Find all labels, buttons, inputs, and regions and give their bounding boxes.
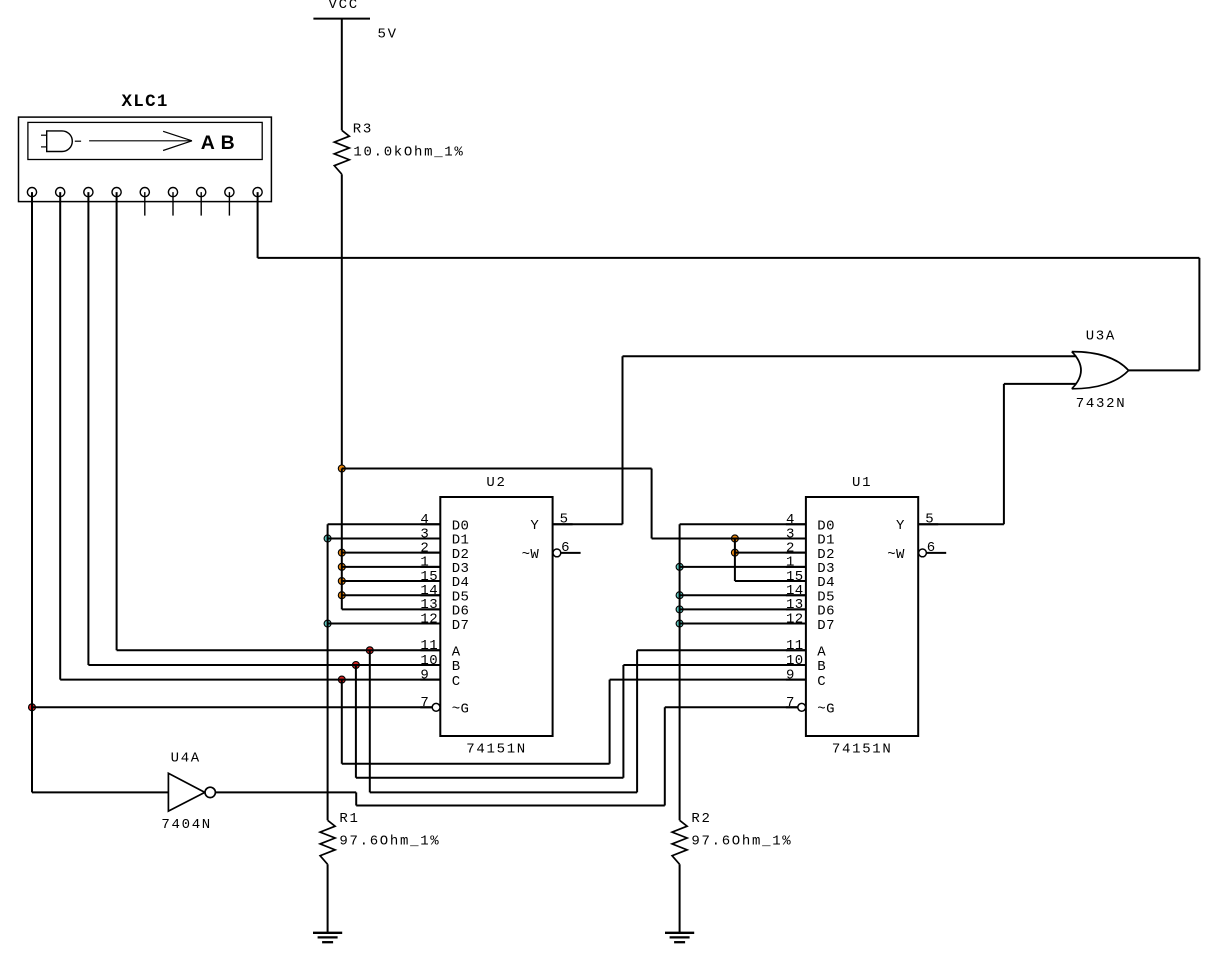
- svg-text:12: 12: [420, 611, 438, 627]
- XLC1 terminal 5: [140, 188, 149, 197]
- wire A branch down: [369, 650, 371, 792]
- U1 pin 7 bubble: [798, 703, 806, 711]
- wire top horizontal: [258, 257, 1200, 259]
- U2 pin 9 C stub: [420, 679, 440, 681]
- svg-text:97.6Ohm_1%: 97.6Ohm_1%: [691, 834, 792, 850]
- svg-text:11: 11: [786, 638, 804, 654]
- wire XLC1 terminal 3 down: [87, 192, 89, 665]
- junction U2 D1: [324, 535, 331, 542]
- wire B to U2 pin 10: [88, 664, 440, 666]
- wire C to U1 pin 9: [610, 679, 806, 681]
- U1 pin 13 D6 stub: [786, 608, 806, 610]
- svg-text:6: 6: [561, 540, 570, 556]
- wire U2 ground bus vertical: [327, 524, 329, 820]
- svg-text:11: 11: [420, 638, 438, 654]
- XLC1 unused terminal 8 stub: [228, 192, 230, 216]
- junction U1 D5: [676, 592, 683, 599]
- wire U1 D3 from bus: [680, 566, 806, 568]
- XLC1 unused terminal 6 stub: [172, 192, 174, 216]
- U1 pin 6 ~W stub: [926, 552, 946, 554]
- wire G to U1 pin 7: [665, 706, 798, 708]
- svg-text:Y: Y: [896, 518, 905, 534]
- wire U2 D7 from bus: [328, 623, 441, 625]
- U2 pin 7 bubble: [432, 703, 440, 711]
- XLC1 unused terminal 5 stub: [144, 192, 146, 216]
- wire A up to U1 level: [636, 650, 638, 792]
- U1 pin 6 bubble: [919, 549, 927, 557]
- wire R1 to ground: [327, 864, 329, 933]
- wire XLC1 terminal 1 down: [31, 192, 33, 792]
- junction B branch: [352, 662, 359, 669]
- svg-text:Y: Y: [530, 518, 539, 534]
- svg-text:~G: ~G: [452, 702, 470, 718]
- wire R3 bottom to node: [341, 174, 343, 468]
- wire U2 D4 from bus: [342, 580, 441, 582]
- ground GND2: [665, 932, 694, 934]
- svg-text:U1: U1: [852, 475, 872, 491]
- U1 pin 5 Y stub: [918, 523, 938, 525]
- U4A output bubble: [205, 787, 215, 797]
- power VCC 5V symbol: [313, 18, 370, 20]
- wire U2 D6 from bus: [342, 608, 441, 610]
- svg-text:XLC1: XLC1: [122, 92, 169, 112]
- svg-text:7432N: 7432N: [1076, 396, 1127, 412]
- junction U1 D6: [676, 606, 683, 613]
- XLC1 terminal 9: [253, 188, 262, 197]
- U1 pin 14 D5 stub: [786, 594, 806, 596]
- svg-text:74151N: 74151N: [466, 742, 527, 758]
- svg-text:R3: R3: [353, 122, 373, 138]
- svg-text:~G: ~G: [817, 702, 835, 718]
- XLC1 terminal 6: [168, 188, 177, 197]
- wire down to U1 D1 level: [651, 469, 653, 539]
- wire U2 D3 from bus: [342, 566, 441, 568]
- svg-text:~W: ~W: [522, 547, 540, 563]
- U1 pin 3 D1 stub: [786, 537, 806, 539]
- U1 pin 4 D0 stub: [786, 523, 806, 525]
- wire R3 node horizontal: [342, 468, 652, 470]
- U2 pin 15 D4 stub: [420, 580, 440, 582]
- junction C branch: [338, 676, 345, 683]
- wire A to U2 pin 11: [117, 649, 441, 651]
- svg-text:A B: A B: [201, 132, 235, 154]
- svg-text:D7: D7: [452, 618, 470, 634]
- XLC1 terminal 4: [112, 188, 121, 197]
- U2 pin 6 bubble: [553, 549, 561, 557]
- resistor R2: [672, 820, 687, 864]
- wire XLC1 terminal 2 down: [59, 192, 61, 679]
- wire U1 D4 from branch: [735, 580, 806, 582]
- wire U2 D5 from bus: [342, 594, 441, 596]
- wire U1 Y to corner: [918, 523, 1004, 525]
- svg-text:9: 9: [786, 667, 795, 683]
- svg-text:10.0kOhm_1%: 10.0kOhm_1%: [353, 144, 464, 160]
- wire U4A output: [215, 791, 356, 793]
- svg-text:C: C: [817, 674, 826, 690]
- svg-text:9: 9: [420, 667, 429, 683]
- U2 pin 12 D7 stub: [420, 623, 440, 625]
- junction U1 D2: [731, 549, 738, 556]
- U2 pin 3 D1 stub: [420, 537, 440, 539]
- wire OR output: [1129, 369, 1200, 371]
- wire to U4A input: [32, 791, 168, 793]
- XLC1 unused terminal 7 stub: [200, 192, 202, 216]
- IC U2 body: [440, 497, 552, 736]
- U2 pin 13 D6 stub: [420, 608, 440, 610]
- svg-text:U4A: U4A: [171, 750, 201, 766]
- U1 pin 15 D4 stub: [786, 580, 806, 582]
- U2 pin 5 Y stub: [553, 523, 573, 525]
- svg-text:5V: 5V: [378, 26, 398, 42]
- XLC1 terminal 1: [27, 188, 36, 197]
- XLC1 terminal 8: [225, 188, 234, 197]
- instrument XLC1 outer box: [19, 117, 272, 202]
- svg-text:7404N: 7404N: [161, 817, 212, 833]
- svg-text:B: B: [817, 659, 826, 675]
- XLC1 AND-gate icon: [47, 131, 73, 152]
- wire U1 D5 from bus: [680, 594, 806, 596]
- U2 pin 7 ~G stub: [420, 706, 432, 708]
- wire B lower horizontal: [356, 777, 624, 779]
- wire C to U2 pin 9: [60, 679, 440, 681]
- junction U2 D7: [324, 620, 331, 627]
- U2 pin 11 A stub: [420, 649, 440, 651]
- junction U1 D3: [676, 563, 683, 570]
- wire G to U2 pin 7: [32, 706, 432, 708]
- junction A branch: [366, 647, 373, 654]
- wire U1 D0 to bus corner: [680, 523, 806, 525]
- instrument XLC1 inner display box: [28, 122, 262, 159]
- wire B branch down: [355, 665, 357, 778]
- wire U1 D6 from bus: [680, 608, 806, 610]
- U2 pin 1 D3 stub: [420, 566, 440, 568]
- svg-text:A: A: [817, 645, 826, 661]
- wire VCC to R3 top: [341, 19, 343, 131]
- U2 pin 4 D0 stub: [420, 523, 440, 525]
- wire U2 D2-D6 bus vertical: [341, 469, 343, 610]
- IC U1 body: [806, 497, 918, 736]
- U1 pin 1 D3 stub: [786, 566, 806, 568]
- op gate U3A 7432N body: [1072, 352, 1081, 389]
- svg-text:12: 12: [786, 611, 804, 627]
- junction U2 D3: [338, 563, 345, 570]
- wire up to OR in1 level: [622, 356, 624, 524]
- U2 pin 6 ~W stub: [561, 552, 581, 554]
- ground GND1: [313, 932, 342, 934]
- wire A to U1 pin 11: [637, 649, 806, 651]
- svg-text:6: 6: [927, 540, 936, 556]
- wire C lower horizontal: [342, 763, 610, 765]
- wire U1 ground bus vertical: [679, 524, 681, 820]
- wire U2 D0 to bus corner: [328, 523, 441, 525]
- XLC1 terminal 2: [56, 188, 65, 197]
- wire R2 to ground: [679, 864, 681, 933]
- U1 pin 12 D7 stub: [786, 623, 806, 625]
- wire OR input 1: [623, 355, 1077, 357]
- resistor R1: [320, 820, 335, 864]
- svg-text:A: A: [452, 645, 461, 661]
- XLC1 arrow: [89, 140, 191, 142]
- U1 pin 11 A stub: [786, 649, 806, 651]
- XLC1 terminal 3: [84, 188, 93, 197]
- wire into U1 D1: [652, 537, 806, 539]
- U2 pin 2 D2 stub: [420, 552, 440, 554]
- XLC1 terminal 7: [197, 188, 206, 197]
- wire C branch down: [341, 680, 343, 764]
- wire G lower horizontal: [356, 805, 665, 807]
- wire up to OR in2 level: [1003, 384, 1005, 524]
- U2 pin 10 B stub: [420, 664, 440, 666]
- svg-text:74151N: 74151N: [832, 742, 893, 758]
- junction R3 node: [338, 465, 345, 472]
- wire right vertical: [1198, 258, 1200, 371]
- wire U1 D1-D2-D4 branch vertical: [734, 538, 736, 581]
- junction U2 D5: [338, 592, 345, 599]
- svg-text:U3A: U3A: [1086, 328, 1116, 344]
- junction U1 D1: [731, 535, 738, 542]
- wire XLC1 terminal 4 down: [116, 192, 118, 650]
- svg-text:10: 10: [786, 653, 804, 669]
- svg-text:R1: R1: [339, 811, 359, 827]
- wire B up to U1 level: [622, 665, 624, 778]
- wire U2 D2 from bus: [342, 552, 441, 554]
- wire step down: [355, 792, 357, 805]
- U1 pin 2 D2 stub: [786, 552, 806, 554]
- wire XLC1 terminal 9 down: [257, 192, 259, 258]
- svg-text:C: C: [452, 674, 461, 690]
- svg-text:~W: ~W: [887, 547, 905, 563]
- resistor R3: [334, 130, 349, 174]
- wire B to U1 pin 10: [623, 664, 806, 666]
- junction U2 D4: [338, 578, 345, 585]
- wire OR input 2: [1004, 383, 1076, 385]
- svg-text:VCC: VCC: [329, 0, 359, 13]
- svg-text:7: 7: [786, 695, 795, 711]
- svg-text:10: 10: [420, 653, 438, 669]
- junction U2 D2: [338, 549, 345, 556]
- svg-text:97.6Ohm_1%: 97.6Ohm_1%: [339, 834, 440, 850]
- wire U2 Y to corner: [553, 523, 623, 525]
- svg-text:7: 7: [420, 695, 429, 711]
- wire U1 D7 from bus: [680, 623, 806, 625]
- wire C up to U1 level: [609, 680, 611, 764]
- U1 pin 10 B stub: [786, 664, 806, 666]
- svg-text:D7: D7: [817, 618, 835, 634]
- wire U1 D2 from branch: [735, 552, 806, 554]
- junction U1 D7: [676, 620, 683, 627]
- junction G branch: [29, 704, 36, 711]
- op gate U4A 7404N triangle: [168, 773, 204, 811]
- svg-text:B: B: [452, 659, 461, 675]
- wire A lower horizontal: [370, 791, 637, 793]
- wire G up to U1 level: [664, 707, 666, 805]
- U1 pin 9 C stub: [786, 679, 806, 681]
- svg-text:U2: U2: [486, 475, 506, 491]
- svg-text:R2: R2: [691, 811, 711, 827]
- wire U2 D1 from bus: [328, 537, 441, 539]
- U1 pin 7 ~G stub: [786, 706, 798, 708]
- U2 pin 14 D5 stub: [420, 594, 440, 596]
